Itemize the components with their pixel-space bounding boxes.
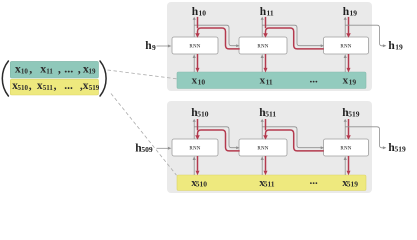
wire red U4 down to bar [196,156,200,175]
svg-text:h519: h519 [342,107,360,119]
wire red U6 down to bar [347,156,351,175]
wire red U1 down to bar [196,54,200,73]
input bar x_510..x_519 [177,175,366,191]
wire gray input h_9 to U1 [157,45,172,48]
svg-text:h19: h19 [388,40,403,52]
wire gray output stub U6 to h_519 [344,119,347,139]
wire red h_19 down into U3 [346,17,351,38]
svg-text:h519: h519 [388,142,406,154]
svg-text:...: ... [310,175,319,187]
left vector teal row [10,61,98,78]
wire red stub h_11 down [265,17,267,28]
wire gray output stub U1 to h_10 [193,17,196,37]
wire red backward U2 to U1 [195,28,240,49]
wire gray output stub U3 to h_19 [344,17,347,37]
wire gray forward U5 to U6 [262,127,324,150]
top panel [167,2,372,91]
wire red h_519 down into U6 [346,119,351,140]
bottom panel [167,101,372,193]
wire red stub h_510 down [197,119,199,130]
wire gray bar to U2 [261,54,264,72]
svg-text:h11: h11 [260,6,274,18]
svg-text:RNN: RNN [340,147,351,152]
RNN box U3 (top panel) [324,37,369,54]
svg-text:RNN: RNN [189,45,200,50]
wire gray output stub U4 to h_510 [193,119,196,139]
svg-text:h510: h510 [191,107,209,119]
wire gray output U6 to right h_519 [345,127,386,150]
wire red U5 down to bar [264,156,268,175]
dashed link to bottom input bar [111,94,177,176]
wire gray bar to U5 [261,156,264,175]
wire gray bar to U1 [193,54,196,72]
wire gray output stub U2 to h_11 [261,17,264,37]
svg-text:h19: h19 [343,6,358,18]
svg-text:RNN: RNN [340,45,351,50]
svg-text:RNN: RNN [257,45,268,50]
input bar x_10..x_19 [177,72,366,89]
svg-text:RNN: RNN [257,147,268,152]
left paren [2,61,8,96]
wire gray forward U4 to U5 [194,127,239,150]
RNN box U2 (top panel) [239,37,287,54]
svg-text:h509: h509 [135,142,153,154]
wire gray bar to U4 [193,156,196,175]
wire gray forward U2 to U3 [262,25,324,47]
RNN box U6 (bottom panel) [324,139,369,156]
wire gray output U3 to right h_19 [345,25,386,47]
right paren [100,61,106,96]
wire red backward U6 to U5 [263,130,324,151]
wire red stub h_511 down [265,119,267,130]
RNN box U5 (bottom panel) [239,139,287,156]
svg-text:RNN: RNN [189,147,200,152]
wire red backward U3 to U2 [263,28,324,49]
RNN box U1 (top panel) [172,37,218,54]
svg-text:...: ... [310,74,319,86]
svg-text:h10: h10 [192,6,207,18]
wire gray output stub U5 to h_511 [261,119,264,139]
wire red backward U5 to U4 [195,130,240,151]
svg-text:h9: h9 [145,40,156,52]
left vector yellow row [10,79,98,95]
wire gray bar to U3 [344,54,347,72]
wire red U2 down to bar [264,54,268,73]
wire gray forward U1 to U2 [194,25,239,47]
RNN box U4 (bottom panel) [172,139,218,156]
wire gray input h_509 to U4 [157,147,172,150]
wire red U3 down to bar [347,54,351,73]
dashed link to top input bar [108,70,177,79]
wire red stub h_10 down [197,17,199,28]
wire gray bar to U6 [344,156,347,175]
svg-text:h511: h511 [259,107,276,119]
